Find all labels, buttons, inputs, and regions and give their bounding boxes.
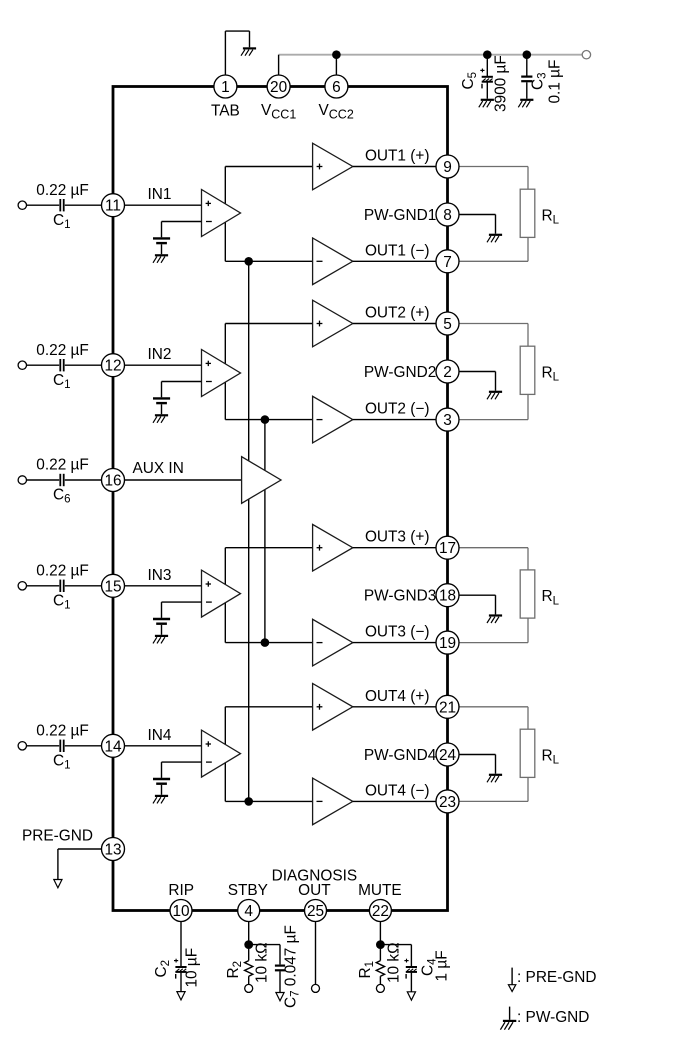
IC package outline	[113, 87, 448, 911]
svg-text:C7 0.047 µF: C7 0.047 µF	[283, 925, 302, 1008]
wire pin 9 to load RL ch1	[459, 167, 528, 190]
pin 1 TAB	[214, 75, 237, 98]
svg-text:0.22 µF: 0.22 µF	[36, 182, 89, 199]
svg-text:C1: C1	[53, 752, 71, 771]
plus input mark IN3	[206, 581, 211, 586]
plus mark buffer 3	[317, 545, 323, 551]
junction node C5 on rail	[483, 50, 492, 59]
pre-gnd symbol at C7	[276, 993, 284, 1001]
pin 14 IN4	[102, 734, 125, 757]
svg-text:20: 20	[270, 79, 287, 96]
svg-text:3900 µF: 3900 µF	[493, 55, 510, 112]
junction node VCC2 on rail	[332, 50, 341, 59]
wire pin 10 to C2	[180, 922, 182, 966]
wire terminal to C1	[27, 364, 60, 366]
buffer amp OUT1(+)	[313, 143, 353, 190]
capacitor C4 1 uF electrolytic	[404, 959, 417, 979]
wire inverting input IN4	[162, 762, 202, 778]
svg-text:STBY: STBY	[228, 882, 268, 899]
buffer amp OUT4(+)	[313, 684, 353, 731]
op-amp input amplifier IN2	[202, 350, 241, 397]
svg-text:1 µF: 1 µF	[434, 950, 451, 981]
svg-text:21: 21	[439, 699, 456, 716]
pin 16 AUX IN	[102, 469, 125, 492]
pin 19 OUT3(-)	[436, 631, 459, 654]
pin 9 OUT1(+)	[436, 155, 459, 178]
terminal at R2	[245, 984, 253, 992]
wire pin 24 to pw-gnd	[459, 755, 496, 774]
wire pin 21 to load RL ch4	[459, 707, 528, 729]
wire rail to C5	[486, 55, 488, 76]
wire C1 to pin 15	[65, 585, 102, 587]
minus mark buffer 4	[317, 800, 323, 802]
plus input mark IN4	[206, 741, 211, 746]
wire splitter ch2	[225, 324, 312, 420]
wire load RL to pin 19 ch3	[459, 618, 528, 642]
svg-text:OUT3 (+): OUT3 (+)	[365, 529, 430, 546]
wire inverting input IN3	[162, 602, 202, 618]
svg-text:IN1: IN1	[148, 186, 172, 203]
input terminal IN3	[18, 582, 26, 590]
svg-text:13: 13	[104, 842, 121, 859]
wire splitter ch3	[225, 548, 312, 643]
wire terminal to C1	[27, 745, 60, 747]
wire pin 12 to op-amp	[125, 364, 202, 366]
svg-text:10 kΩ: 10 kΩ	[386, 942, 403, 983]
svg-text:22: 22	[372, 903, 389, 920]
junction node C3 on rail	[523, 50, 532, 59]
wire pin 22 to junction	[379, 922, 381, 945]
wire buffer to pin 23	[353, 800, 436, 802]
pw-gnd symbol at IN4	[153, 796, 168, 804]
junction node OUT3(-)	[261, 638, 270, 647]
svg-text:OUT1 (−): OUT1 (−)	[365, 242, 430, 259]
legend pw-gnd symbol	[500, 1007, 516, 1030]
svg-text:PW-GND3: PW-GND3	[364, 588, 436, 605]
terminal at pin 25	[312, 984, 320, 992]
svg-text:RIP: RIP	[168, 882, 194, 899]
wire pin 17 to load RL ch3	[459, 548, 528, 570]
svg-text:16: 16	[104, 473, 121, 490]
wire inverting input IN2	[162, 382, 202, 398]
svg-text:C6: C6	[53, 487, 71, 506]
feedback capacitor at IN2	[153, 398, 170, 414]
pre-gnd symbol at pin 13	[54, 880, 62, 888]
wire load RL to pin 3 ch2	[459, 395, 528, 420]
pin 4 STBY	[238, 900, 260, 922]
pin 23 OUT4(-)	[436, 790, 459, 813]
feedback capacitor at IN4	[153, 779, 170, 795]
minus input mark IN4	[206, 761, 212, 763]
svg-text:VCC2: VCC2	[319, 102, 354, 122]
wire pin 16 to aux amp	[125, 479, 242, 481]
svg-text:RL: RL	[542, 588, 560, 607]
terminal at R1	[376, 984, 384, 992]
pw-gnd symbol ch4	[487, 775, 502, 783]
svg-text:18: 18	[439, 588, 456, 605]
wire splitter ch4	[225, 707, 312, 802]
svg-text:OUT1 (+): OUT1 (+)	[365, 148, 430, 165]
pin 13 PRE-GND	[102, 838, 125, 861]
junction node OUT4(-)	[244, 797, 253, 806]
svg-text:10 kΩ: 10 kΩ	[254, 942, 271, 983]
pin 2 PW-GND2	[436, 360, 459, 383]
svg-text:0.1 µF: 0.1 µF	[547, 60, 564, 104]
pin 22 MUTE	[369, 900, 391, 922]
op-amp input amplifier IN3	[202, 570, 241, 617]
capacitor C6 0.22 uF	[60, 474, 63, 486]
svg-text:RL: RL	[542, 748, 560, 767]
svg-text:15: 15	[104, 578, 121, 595]
pin 5 OUT2(+)	[436, 312, 459, 335]
svg-text:PRE-GND: PRE-GND	[22, 828, 93, 845]
svg-text:C5: C5	[460, 72, 479, 90]
pin 11 IN1	[102, 194, 125, 217]
junction node OUT1(-)	[244, 257, 253, 266]
svg-text:24: 24	[439, 747, 457, 764]
wire buffer to pin 5	[353, 323, 436, 325]
minus mark buffer 2	[317, 419, 323, 421]
wire C1 to pin 14	[65, 745, 102, 747]
svg-text:5: 5	[443, 316, 452, 333]
svg-text:MUTE: MUTE	[358, 882, 402, 899]
svg-text:19: 19	[439, 635, 456, 652]
svg-text:C1: C1	[53, 372, 71, 391]
plus input mark IN2	[206, 361, 211, 366]
svg-text:: PW-GND: : PW-GND	[517, 1009, 589, 1026]
pin 10 RIP	[170, 900, 192, 922]
svg-text:OUT4 (+): OUT4 (+)	[365, 688, 430, 705]
wire pin 8 to pw-gnd	[459, 215, 496, 234]
wire buffer to pin 21	[353, 706, 436, 708]
svg-text:OUT2 (+): OUT2 (+)	[365, 305, 430, 322]
svg-text:3: 3	[443, 412, 452, 429]
resistor RL ch3	[520, 570, 535, 618]
pin 12 IN2	[102, 354, 125, 377]
buffer amp OUT2(+)	[313, 300, 353, 347]
wire pin 6 to rail	[335, 55, 337, 75]
buffer amp OUT4(-)	[313, 778, 353, 825]
wire pin 11 to op-amp	[125, 204, 202, 206]
svg-text:1: 1	[221, 79, 230, 96]
wire buffer to pin 17	[353, 547, 436, 549]
capacitor C7 0.047 uF	[275, 966, 285, 993]
pin 17 OUT3(+)	[436, 536, 459, 559]
svg-text:9: 9	[443, 159, 452, 176]
wire pin 14 to op-amp	[125, 745, 202, 747]
plus input mark IN1	[206, 201, 211, 206]
wire load RL to pin 23 ch4	[459, 778, 528, 802]
wire pin 1 TAB to pw-gnd	[225, 31, 249, 76]
wire pin 25 to terminal	[315, 922, 317, 985]
pin 6 VCC2	[325, 75, 348, 98]
wire buffer to pin 7	[353, 260, 436, 262]
resistor R2 10 kOhm	[245, 961, 253, 977]
pin 25 DIAGNOSIS OUT	[305, 900, 327, 922]
capacitor C3 0.1 uF	[521, 77, 532, 99]
capacitor C1 0.22 uF	[60, 580, 63, 592]
capacitor C1 0.22 uF	[60, 359, 63, 371]
svg-text:0.22 µF: 0.22 µF	[36, 722, 89, 739]
svg-text:0.22 µF: 0.22 µF	[36, 342, 89, 359]
wire junction to C4	[380, 945, 411, 967]
pw-gnd symbol ch1	[487, 235, 502, 243]
svg-text:PW-GND4: PW-GND4	[364, 747, 437, 764]
net bus B (OUT2- to OUT3- feedback line)	[264, 420, 266, 643]
wire splitter ch1	[225, 167, 312, 262]
supply rail net	[279, 54, 587, 56]
svg-text:10: 10	[172, 903, 189, 920]
pw-gnd symbol at TAB	[241, 48, 256, 55]
svg-text:C2: C2	[153, 960, 172, 978]
supply terminal	[582, 51, 590, 59]
input terminal IN4	[18, 742, 26, 750]
pin 7 OUT1(-)	[436, 250, 459, 273]
wire load RL to pin 7 ch1	[459, 238, 528, 262]
input terminal IN2	[18, 361, 26, 369]
svg-text:RL: RL	[542, 208, 560, 227]
capacitor C2 10 uF electrolytic	[174, 959, 187, 979]
wire pin 5 to load RL ch2	[459, 324, 528, 347]
svg-text:C1: C1	[53, 212, 71, 231]
wire pin 2 to pw-gnd	[459, 372, 496, 391]
resistor RL ch1	[520, 189, 535, 237]
op-amp input amplifier IN4	[202, 730, 241, 777]
pre-gnd symbol at C2	[177, 992, 185, 1000]
svg-text:17: 17	[439, 540, 456, 557]
wire pin 20 to rail	[278, 55, 280, 75]
op-amp input amplifier IN1	[202, 190, 241, 237]
input terminal IN1	[18, 201, 26, 209]
pin 3 OUT2(-)	[436, 408, 459, 431]
pin 15 IN3	[102, 574, 125, 597]
wire terminal to C6	[27, 479, 60, 481]
pre-gnd symbol at C4	[407, 992, 415, 1000]
pw-gnd symbol ch3	[487, 616, 502, 624]
wire rail to C3	[526, 55, 528, 76]
pw-gnd symbol at IN3	[153, 636, 168, 644]
wire pin 13 to pre-gnd	[58, 849, 102, 880]
svg-text:C1: C1	[53, 592, 71, 611]
net bus A (OUT1- to OUT4- feedback line)	[248, 261, 250, 801]
resistor RL ch2	[520, 346, 535, 394]
svg-text:0.22 µF: 0.22 µF	[36, 562, 89, 579]
pin 24 PW-GND4	[436, 743, 459, 766]
svg-text:IN2: IN2	[148, 346, 172, 363]
svg-text:0.22 µF: 0.22 µF	[36, 457, 89, 474]
feedback capacitor at IN3	[153, 619, 170, 635]
svg-text:11: 11	[105, 198, 121, 215]
resistor R1 10 kOhm	[376, 961, 384, 977]
svg-text:R2: R2	[225, 961, 244, 979]
legend pre-gnd symbol	[508, 968, 515, 992]
wire terminal to C1	[27, 585, 60, 587]
svg-text:2: 2	[443, 364, 452, 381]
junction node OUT2(-)	[261, 415, 270, 424]
svg-text:14: 14	[104, 738, 122, 755]
svg-text:PW-GND2: PW-GND2	[364, 364, 436, 381]
minus mark buffer 1	[317, 260, 323, 262]
plus mark buffer 1	[317, 164, 323, 170]
wire inverting input IN1	[162, 222, 202, 238]
minus input mark IN2	[206, 381, 212, 383]
buffer amp OUT1(-)	[313, 238, 353, 285]
wire pin 18 to pw-gnd	[459, 595, 496, 614]
wire C1 to pin 11	[65, 204, 102, 206]
wire C1 to pin 12	[65, 364, 102, 366]
svg-text:OUT3 (−): OUT3 (−)	[365, 624, 430, 641]
svg-text:IN4: IN4	[148, 727, 172, 744]
pw-gnd symbol at C5	[479, 100, 494, 108]
svg-text:7: 7	[443, 254, 452, 271]
svg-text:TAB: TAB	[211, 103, 240, 120]
svg-text:8: 8	[443, 207, 452, 224]
svg-text:AUX IN: AUX IN	[133, 460, 184, 477]
junction node STBY	[244, 940, 253, 949]
capacitor C1 0.22 uF	[60, 199, 63, 211]
wire buffer to pin 3	[353, 419, 436, 421]
svg-text:OUT2 (−): OUT2 (−)	[365, 401, 430, 418]
buffer amp OUT3(+)	[313, 524, 353, 571]
svg-text:OUT: OUT	[298, 882, 331, 899]
pw-gnd symbol ch2	[487, 392, 502, 400]
pw-gnd symbol at C3	[518, 100, 533, 108]
resistor RL ch4	[520, 729, 535, 777]
pw-gnd symbol at IN1	[153, 255, 168, 262]
minus input mark IN3	[206, 601, 212, 603]
wire junction to C7	[249, 945, 280, 965]
wire pin 4 to junction	[248, 922, 250, 945]
pin 21 OUT4(+)	[436, 695, 459, 718]
aux input terminal	[18, 476, 26, 484]
svg-text:: PRE-GND: : PRE-GND	[517, 969, 597, 986]
svg-text:VCC1: VCC1	[261, 102, 296, 122]
wire C6 to pin 16	[65, 479, 102, 481]
feedback capacitor at IN1	[153, 238, 170, 254]
plus mark buffer 2	[317, 321, 323, 327]
svg-text:12: 12	[104, 358, 121, 375]
pw-gnd symbol at IN2	[153, 415, 168, 423]
svg-text:PW-GND1: PW-GND1	[364, 207, 436, 224]
svg-text:OUT4 (−): OUT4 (−)	[365, 782, 430, 799]
junction node MUTE	[376, 940, 385, 949]
wire pin 15 to op-amp	[125, 585, 202, 587]
svg-text:IN3: IN3	[148, 567, 172, 584]
capacitor C5 3900 uF electrolytic	[480, 69, 493, 89]
wire junction to R1	[379, 949, 381, 961]
svg-text:4: 4	[244, 903, 253, 920]
wire buffer to pin 19	[353, 642, 436, 644]
svg-text:10 µF: 10 µF	[184, 948, 201, 988]
pin 20 VCC1	[267, 75, 290, 98]
plus mark buffer 4	[317, 704, 323, 710]
svg-text:23: 23	[439, 794, 456, 811]
wire terminal to C1	[27, 204, 60, 206]
minus input mark IN1	[206, 221, 212, 223]
svg-text:RL: RL	[542, 365, 560, 384]
capacitor C1 0.22 uF	[60, 740, 63, 752]
buffer amp OUT2(-)	[313, 396, 353, 443]
svg-text:6: 6	[332, 79, 341, 96]
pin 8 PW-GND1	[436, 203, 459, 226]
pin 18 PW-GND3	[436, 584, 459, 607]
svg-text:25: 25	[307, 903, 324, 920]
wire buffer to pin 9	[353, 166, 436, 168]
op-amp aux amplifier	[242, 457, 281, 504]
minus mark buffer 3	[317, 642, 323, 644]
svg-text:R1: R1	[357, 961, 376, 979]
wire junction to R2	[248, 949, 250, 961]
buffer amp OUT3(-)	[313, 619, 353, 666]
